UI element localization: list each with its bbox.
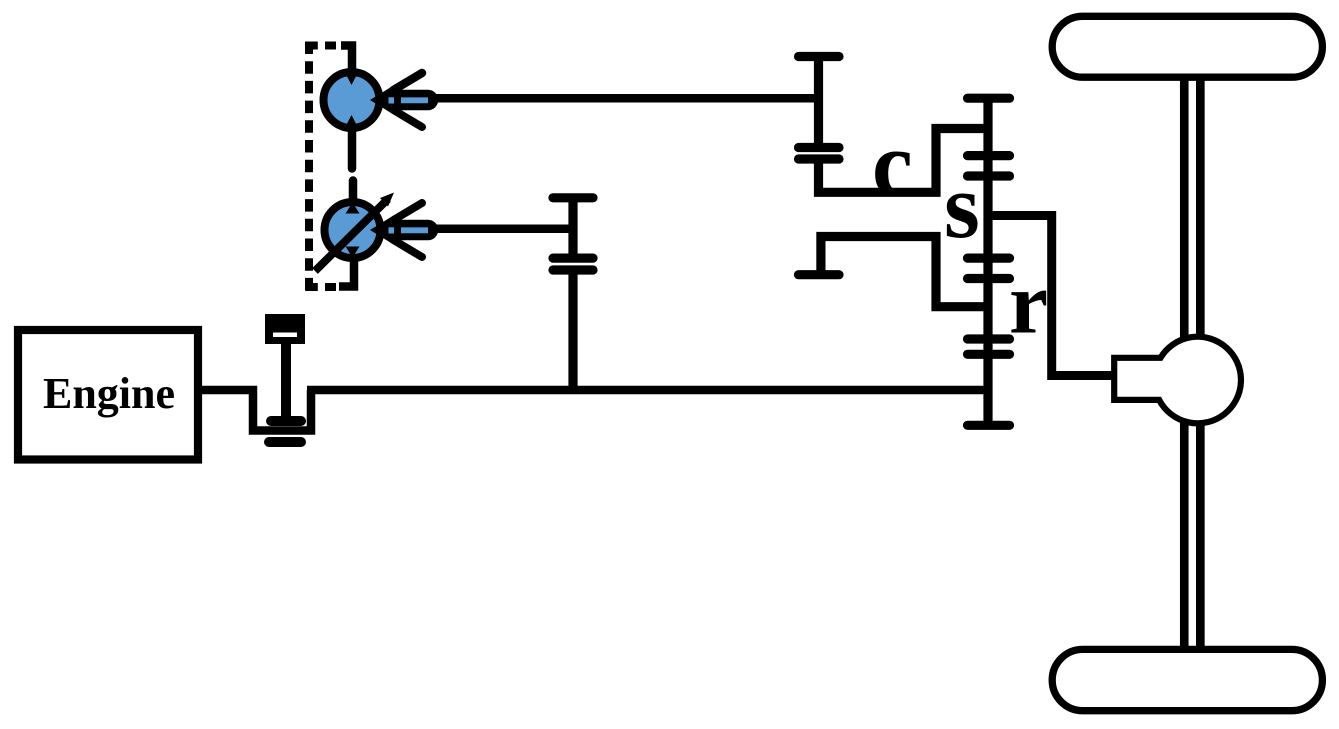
flow arrow into pump P2: lower barb — [394, 240, 423, 257]
middle gear lower stem to main shaft — [568, 270, 577, 390]
countershaft gear lower stem, elbow, carrier riser and link to planetary shaft — [819, 129, 988, 193]
planetary central shaft — [983, 98, 992, 425]
pump P2 variable arrow head — [380, 193, 394, 207]
damper stem — [281, 344, 291, 420]
pump P2 top stem — [349, 181, 358, 203]
flow arrow into pump P2: upper barb — [394, 203, 423, 220]
svg-text:Engine: Engine — [43, 369, 175, 418]
engine box — [18, 330, 198, 460]
ring gear pinion stem, link and riser to planetary shaft — [821, 237, 987, 307]
sun link: to differential — [988, 216, 1114, 376]
damper mass slot — [273, 333, 297, 338]
planetary mesh pair 3 upper bar — [968, 334, 1010, 343]
ring gear pinion bar — [799, 270, 840, 279]
axle upper right line — [1196, 77, 1205, 340]
flow arrow into motor M1: lower barb — [394, 110, 423, 127]
bottom wheel — [1052, 649, 1322, 710]
countershaft gear upper stem — [814, 57, 823, 148]
motor M1 bottom stem — [348, 131, 357, 169]
differential bulb (pinion housing + ring) — [1114, 337, 1241, 424]
pump P2 circle — [325, 202, 381, 258]
pump P2 bottom stem with elbow — [339, 260, 354, 287]
planetary shaft bottom cap — [968, 421, 1010, 430]
middle gear mesh bar upper — [553, 254, 593, 263]
flow arrow into pump P2: tip wedge — [370, 217, 391, 243]
shaft from motor M1 to countershaft gear — [433, 94, 818, 103]
middle gear mesh bar lower — [553, 265, 593, 274]
damper friction bar lower — [269, 437, 301, 447]
damper mass block — [265, 314, 305, 344]
axle lower left line — [1180, 420, 1189, 650]
shaft from pump P2 to middle gear — [433, 225, 573, 234]
countershaft gear top cap — [799, 52, 840, 61]
pump P2 lower flow triangle — [346, 247, 360, 258]
flow arrow into motor M1: blue chip — [389, 97, 395, 103]
pump P2 variable displacement arrow — [315, 199, 388, 271]
svg-text:r: r — [1009, 256, 1048, 353]
countershaft gear mesh bar upper — [799, 143, 840, 152]
flow arrow into motor M1: tip wedge — [370, 87, 391, 113]
planetary mesh pair 2 lower bar — [968, 274, 1010, 283]
flow arrow into pump P2: blue stripe — [401, 227, 428, 233]
pump P2 upper flow triangle — [346, 203, 360, 214]
wire: engine output shaft with step-down through damper — [202, 390, 311, 431]
flow arrow into motor M1: shaft bar — [399, 90, 428, 111]
planetary mesh pair 2 upper bar — [968, 254, 1010, 263]
dashed enclosure top edge — [305, 42, 336, 50]
motor M1 top stem with elbow — [341, 46, 352, 75]
wire: main shaft from damper to planetary gear — [307, 386, 987, 395]
axle upper gap whitener — [1189, 77, 1196, 340]
flow arrow into motor M1: upper barb — [394, 73, 423, 90]
middle gear upper stem — [568, 198, 577, 258]
axle upper left line — [1180, 77, 1189, 340]
damper friction bar upper — [271, 416, 301, 426]
top wheel — [1052, 16, 1322, 77]
flow arrow into pump P2: shaft bar — [399, 220, 428, 241]
planetary shaft top cap — [968, 94, 1010, 103]
planetary mesh pair 3 lower bar — [968, 350, 1010, 359]
planetary mesh pair 1 lower bar — [968, 171, 1010, 180]
axle lower gap whitener — [1189, 420, 1196, 650]
motor M1 lower flow triangle — [345, 115, 359, 129]
flow arrow into motor M1: blue stripe — [401, 97, 428, 103]
svg-text:c: c — [872, 113, 913, 215]
dashed enclosure bottom edge — [305, 283, 336, 291]
svg-text:s: s — [944, 155, 980, 257]
axle lower right line — [1196, 420, 1205, 650]
motor M1 upper flow triangle — [345, 72, 359, 86]
motor M1 circle — [324, 72, 380, 128]
countershaft gear mesh bar lower — [799, 154, 840, 163]
middle gear top cap — [553, 193, 593, 202]
dashed enclosure left edge — [305, 42, 313, 291]
planetary mesh pair 1 upper bar — [968, 151, 1010, 160]
flow arrow into pump P2: blue chip — [389, 227, 395, 233]
